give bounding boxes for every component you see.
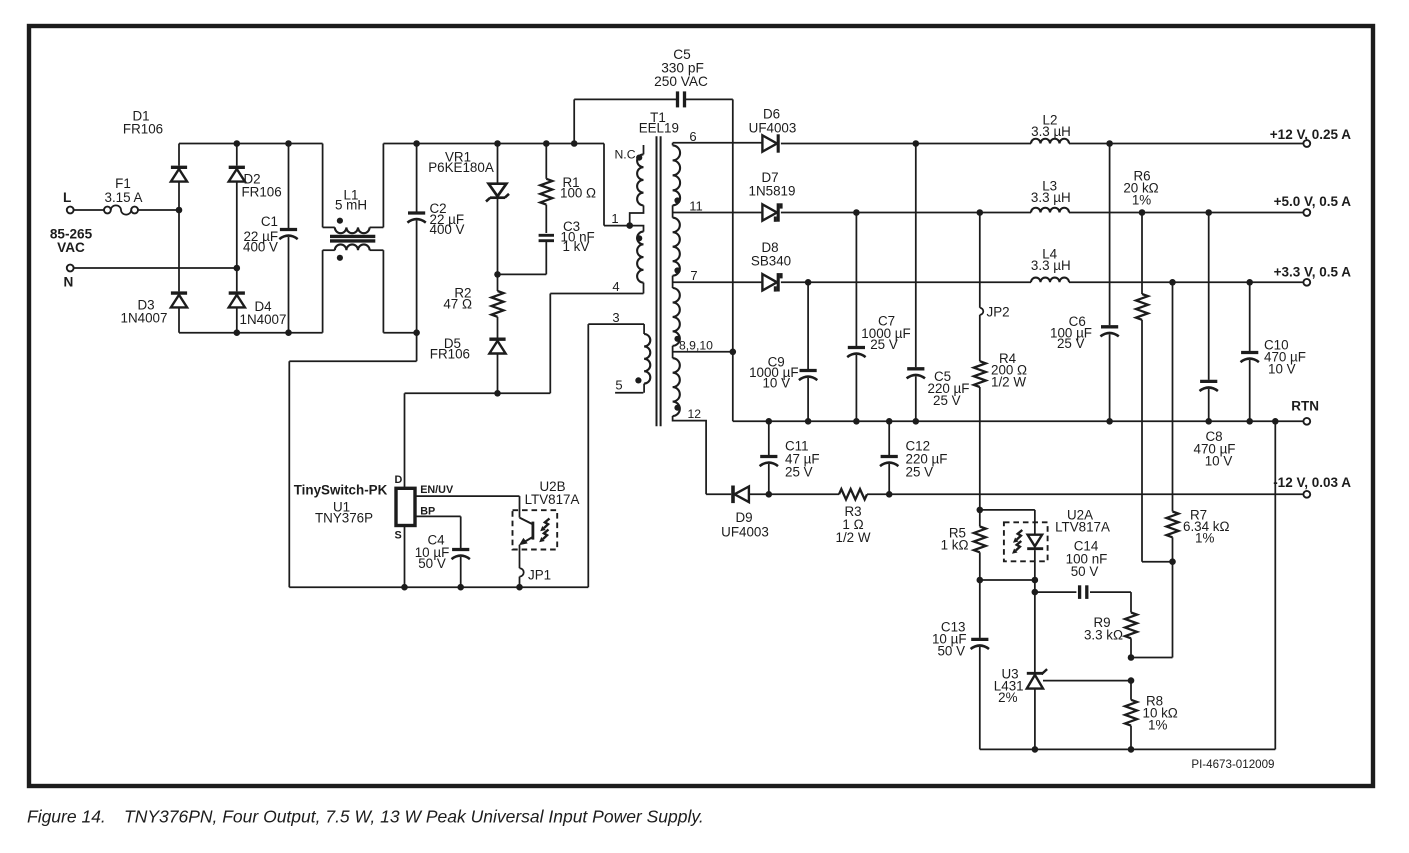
resistor R2 <box>443 274 503 337</box>
svg-text:47 Ω: 47 Ω <box>443 297 472 312</box>
jumper JP2 <box>980 213 1010 362</box>
wire bridge bottom rail <box>179 332 323 334</box>
svg-text:VAC: VAC <box>57 240 85 255</box>
svg-text:50 V: 50 V <box>418 556 446 571</box>
wire pin8910 lead <box>673 339 733 353</box>
svg-text:5 mH: 5 mH <box>335 197 367 212</box>
capacitor C10 <box>1241 282 1306 421</box>
transformer T1 secondary windings <box>673 143 681 416</box>
node bottom-rail riser <box>1272 418 1279 425</box>
transformer T1 bias winding 3-5 <box>635 324 650 393</box>
diode D7 <box>749 170 796 222</box>
terminal -12V <box>1273 475 1351 498</box>
svg-text:EEL19: EEL19 <box>639 121 679 136</box>
svg-text:SB340: SB340 <box>751 254 791 269</box>
diode D2 <box>229 144 282 269</box>
terminal +5V <box>1274 194 1352 216</box>
wire cathode down <box>1034 580 1036 673</box>
resistor R6 <box>1123 169 1158 562</box>
node R7 top <box>1169 279 1176 286</box>
svg-text:FR106: FR106 <box>242 185 282 200</box>
wire fuse to bridge <box>138 209 179 211</box>
wire bridge top rail <box>179 143 323 145</box>
diode D8 <box>751 240 791 292</box>
svg-text:50 V: 50 V <box>937 644 965 659</box>
wire +3.3V rail <box>781 281 1304 283</box>
wire EN/UV <box>416 495 520 497</box>
node C12 bottom <box>886 491 893 498</box>
svg-text:LTV817A: LTV817A <box>525 492 580 507</box>
svg-text:F1: F1 <box>115 176 131 191</box>
svg-text:D9: D9 <box>735 510 752 525</box>
node LED cathode <box>1032 577 1039 584</box>
svg-text:RTN: RTN <box>1291 399 1319 414</box>
wire drain to U1 <box>404 393 406 488</box>
svg-text:-12 V, 0.03 A: -12 V, 0.03 A <box>1273 475 1351 490</box>
wire pin7 lead <box>673 268 763 283</box>
wire pin3 riser <box>588 310 644 587</box>
terminal L <box>63 190 74 213</box>
svg-text:10 V: 10 V <box>1205 454 1233 469</box>
wire LED anode <box>980 510 1035 534</box>
capacitor C4 <box>415 516 470 587</box>
svg-text:400 V: 400 V <box>243 240 278 255</box>
node JP2 top <box>977 209 984 216</box>
node C8 bottom <box>1205 418 1212 425</box>
svg-text:EN/UV: EN/UV <box>420 484 454 496</box>
capacitor C3 <box>539 219 595 274</box>
jumper JP1 <box>520 568 552 588</box>
svg-text:PI-4673-012009: PI-4673-012009 <box>1191 758 1274 771</box>
fuse F1 <box>74 176 143 215</box>
wire U3 ref <box>1043 680 1131 682</box>
svg-text:FR106: FR106 <box>430 347 470 362</box>
inductor L3 <box>1031 179 1071 213</box>
wire pin1 lead <box>604 144 630 227</box>
svg-text:25 V: 25 V <box>785 465 813 480</box>
svg-text:D6: D6 <box>763 107 780 122</box>
node C9 top <box>805 279 812 286</box>
svg-text:1/2 W: 1/2 W <box>836 530 871 545</box>
svg-text:1N5819: 1N5819 <box>749 184 796 199</box>
svg-text:+12 V, 0.25 A: +12 V, 0.25 A <box>1270 127 1351 142</box>
transformer T1 primary winding 1-4 <box>630 226 644 294</box>
resistor R3 <box>836 489 871 545</box>
wire C5 to secondary <box>685 99 733 421</box>
svg-text:+5.0 V, 0.5 A: +5.0 V, 0.5 A <box>1274 194 1352 209</box>
transformer T1 core <box>639 110 679 426</box>
svg-text:D: D <box>395 474 403 486</box>
terminal N <box>64 265 74 290</box>
wire pin11 lead <box>673 199 763 214</box>
node clamp junction <box>494 271 501 278</box>
node sense junction <box>1169 558 1176 565</box>
node D5 drain junction <box>494 390 501 397</box>
svg-text:25 V: 25 V <box>870 337 898 352</box>
svg-text:1/2 W: 1/2 W <box>991 375 1026 390</box>
svg-text:400 V: 400 V <box>430 222 465 237</box>
capacitor C9 <box>749 282 817 421</box>
node C10 top <box>1246 279 1253 286</box>
svg-text:S: S <box>395 530 402 542</box>
capacitor C14 <box>1035 539 1131 613</box>
svg-text:6: 6 <box>689 129 696 144</box>
diode D5 <box>430 336 506 393</box>
wire primary bottom rail <box>383 332 416 334</box>
node C5b top <box>913 140 920 147</box>
svg-text:+3.3 V, 0.5 A: +3.3 V, 0.5 A <box>1274 265 1352 280</box>
svg-text:50 V: 50 V <box>1071 564 1099 579</box>
node ref junction <box>1128 677 1135 684</box>
node C2 top <box>413 140 420 147</box>
wire source rail <box>289 586 588 588</box>
capacitor C12 <box>880 421 947 494</box>
node U3 anode bottom <box>1032 746 1039 753</box>
node C5b bottom <box>913 418 920 425</box>
resistor R8 <box>1125 681 1178 750</box>
diode D3 <box>121 210 188 333</box>
diode D9 <box>706 486 769 540</box>
svg-text:TNY376PN, Four Output, 7.5 W,: TNY376PN, Four Output, 7.5 W, 13 W Peak … <box>124 807 704 827</box>
node C6 top <box>1106 140 1113 147</box>
capacitor C2 <box>407 144 464 333</box>
node N-bridge junction <box>234 265 241 272</box>
svg-text:1N4007: 1N4007 <box>121 311 168 326</box>
node R5 bottom <box>977 577 984 584</box>
terminal RTN <box>1291 399 1319 425</box>
svg-text:P6KE180A: P6KE180A <box>428 160 494 175</box>
inductor L4 <box>1031 247 1071 283</box>
wire -12V rail <box>749 493 1303 495</box>
svg-text:JP1: JP1 <box>528 568 551 583</box>
svg-text:TinySwitch-PK: TinySwitch-PK <box>294 483 388 498</box>
wire +5V rail <box>781 212 1304 214</box>
node C7 bottom <box>853 418 860 425</box>
svg-text:JP2: JP2 <box>987 305 1010 320</box>
wire pin4 lead <box>550 279 643 294</box>
wire C5 branch up <box>574 99 677 143</box>
resistor R5 <box>941 510 986 580</box>
wire pin12 lead <box>673 407 707 494</box>
node source rail S <box>401 584 408 591</box>
optocoupler U2A <box>1004 508 1110 581</box>
capacitor C11 <box>760 421 820 494</box>
svg-text:FR106: FR106 <box>123 122 163 137</box>
zener VR1 <box>428 144 509 275</box>
svg-text:3: 3 <box>612 310 619 325</box>
node JP1 bottom <box>516 584 523 591</box>
svg-text:TNY376P: TNY376P <box>315 511 373 526</box>
resistor R7 <box>1167 282 1230 561</box>
capacitor C1 <box>243 144 298 333</box>
node pin1 <box>626 222 633 229</box>
wire primary top rail <box>383 143 604 145</box>
optocoupler U2B <box>513 479 580 568</box>
wire R6 to sense node <box>1142 561 1173 563</box>
svg-text:250 VAC: 250 VAC <box>654 74 708 89</box>
IC U3 L431 <box>994 667 1047 750</box>
svg-text:L: L <box>63 190 71 205</box>
svg-text:N.C: N.C <box>615 148 636 162</box>
node C14 branch <box>1032 589 1039 596</box>
svg-text:3.3 µH: 3.3 µH <box>1031 124 1071 139</box>
node R1 top <box>543 140 550 147</box>
svg-text:10 V: 10 V <box>762 376 790 391</box>
svg-text:7: 7 <box>690 268 697 283</box>
svg-text:C1: C1 <box>261 214 278 229</box>
node C12 top <box>886 418 893 425</box>
node R8 bottom <box>1128 746 1135 753</box>
svg-text:12: 12 <box>688 407 702 421</box>
svg-text:11: 11 <box>689 199 703 214</box>
figure caption <box>27 807 704 827</box>
wire bus return loop <box>289 333 416 588</box>
svg-text:3.15 A: 3.15 A <box>105 190 143 205</box>
svg-text:8,9,10: 8,9,10 <box>679 339 713 353</box>
terminal +3.3V <box>1274 265 1352 286</box>
svg-text:1%: 1% <box>1148 718 1167 733</box>
svg-text:3.3 µH: 3.3 µH <box>1031 190 1071 205</box>
node C9 bottom <box>805 418 812 425</box>
svg-text:2%: 2% <box>998 690 1017 705</box>
node D2 top <box>234 140 241 147</box>
resistor R4 <box>974 351 1027 510</box>
node C10 bottom <box>1246 418 1253 425</box>
diode D1 <box>123 109 187 211</box>
svg-text:LTV817A: LTV817A <box>1055 520 1110 535</box>
node C1 bottom <box>285 329 292 336</box>
node VR1 top <box>494 140 501 147</box>
svg-text:1 kV: 1 kV <box>563 239 590 254</box>
capacitor C8 <box>1194 213 1236 469</box>
wire drain node <box>405 294 551 394</box>
node opto LED anode <box>977 507 984 514</box>
inductor L2 <box>1031 113 1071 144</box>
capacitor C7 <box>847 213 911 422</box>
svg-text:1 kΩ: 1 kΩ <box>941 538 969 553</box>
diode D6 <box>749 107 797 153</box>
inductor L1 <box>323 144 384 333</box>
svg-text:4: 4 <box>612 279 619 294</box>
wire feedback bottom rail <box>980 421 1276 749</box>
svg-text:100 Ω: 100 Ω <box>560 186 596 201</box>
node C5 branch <box>571 140 578 147</box>
node C11 bottom <box>766 491 773 498</box>
wire RTN rail <box>733 420 1304 422</box>
svg-text:25 V: 25 V <box>906 465 934 480</box>
svg-text:1: 1 <box>611 211 618 226</box>
resistor R1 <box>540 144 596 234</box>
capacitor C6 <box>1050 144 1119 422</box>
node C6 bottom <box>1106 418 1113 425</box>
diode D4 <box>229 268 287 333</box>
node C7 top <box>853 209 860 216</box>
wire C3 to VR1 junction <box>498 273 547 275</box>
svg-text:3.3 µH: 3.3 µH <box>1031 258 1071 273</box>
svg-text:UF4003: UF4003 <box>721 525 769 540</box>
svg-text:N: N <box>64 275 74 290</box>
node C11 top <box>766 418 773 425</box>
svg-text:Figure 14.: Figure 14. <box>27 807 106 827</box>
capacitor C5 330pF <box>654 47 708 107</box>
node D4 bottom <box>234 329 241 336</box>
wire +12V rail <box>781 143 1304 145</box>
terminal +12V <box>1270 127 1351 147</box>
wire pin5 stub <box>615 378 643 393</box>
svg-text:3.3 kΩ: 3.3 kΩ <box>1084 628 1123 643</box>
svg-text:UF4003: UF4003 <box>749 121 797 136</box>
figure number label <box>1191 758 1274 771</box>
svg-text:25 V: 25 V <box>1057 336 1085 351</box>
wire N to bridge <box>74 267 237 269</box>
wire U1 source <box>404 526 406 588</box>
svg-text:1%: 1% <box>1195 531 1214 546</box>
node R6 top <box>1139 209 1146 216</box>
node C4 bottom <box>457 584 464 591</box>
node 8910-C5 junction <box>730 349 737 356</box>
svg-text:1%: 1% <box>1132 193 1151 208</box>
IC U1 TinySwitch <box>294 474 454 542</box>
svg-text:25 V: 25 V <box>933 393 961 408</box>
transformer T1 primary winding NC-1 <box>615 145 644 226</box>
capacitor C13 <box>932 580 989 749</box>
node C8 top <box>1205 209 1212 216</box>
svg-text:10 V: 10 V <box>1268 362 1296 377</box>
node R9 bottom <box>1128 654 1135 661</box>
svg-text:5: 5 <box>615 378 622 393</box>
input voltage label 85-265 VAC <box>50 227 93 256</box>
node C2 bottom <box>413 329 420 336</box>
wire BP <box>416 515 461 517</box>
wire R9 to sense node <box>1131 562 1173 658</box>
resistor R9 <box>1084 613 1137 658</box>
node L-bridge junction <box>176 207 183 214</box>
capacitor C5 220uF <box>907 144 970 422</box>
wire pin6 lead <box>673 129 763 144</box>
wire LED cathode to R5 <box>980 579 1035 581</box>
node C1 top <box>285 140 292 147</box>
svg-text:1N4007: 1N4007 <box>240 312 287 327</box>
